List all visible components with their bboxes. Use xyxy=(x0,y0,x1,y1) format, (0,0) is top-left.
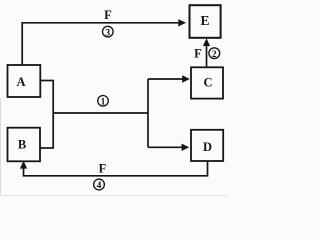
svg-text:F: F xyxy=(104,8,112,22)
svg-text:1: 1 xyxy=(101,98,106,108)
arrowhead into D left xyxy=(182,144,190,151)
box A xyxy=(8,65,41,97)
svg-text:F: F xyxy=(194,46,202,60)
node 1 circled xyxy=(98,96,109,108)
wire route 1 horizontal xyxy=(53,112,149,114)
wire A top to E (route 3) xyxy=(22,23,179,65)
node 2 circled xyxy=(209,48,220,60)
wire A right stub xyxy=(40,80,53,82)
svg-text:4: 4 xyxy=(97,181,102,191)
wire right connector vertical xyxy=(147,79,149,147)
svg-text:B: B xyxy=(18,138,26,152)
wire vertical connector A-B xyxy=(52,80,54,149)
node 4 circled xyxy=(94,179,105,191)
arrowhead into E bottom xyxy=(203,38,210,46)
box C xyxy=(191,67,223,98)
wire C to E (route 2) xyxy=(206,43,208,67)
svg-text:2: 2 xyxy=(212,50,217,60)
svg-text:F: F xyxy=(99,161,107,175)
wire B right stub xyxy=(40,147,53,149)
scan edge artifact left xyxy=(0,98,1,196)
svg-text:C: C xyxy=(203,76,212,90)
arrowhead into C left xyxy=(182,75,190,82)
svg-text:E: E xyxy=(200,13,209,28)
wire branch to C xyxy=(148,78,183,80)
arrowhead into E left xyxy=(178,19,186,26)
box B xyxy=(8,128,41,162)
svg-text:3: 3 xyxy=(105,28,110,38)
wire branch to D xyxy=(148,146,182,148)
svg-text:A: A xyxy=(16,75,25,89)
svg-text:D: D xyxy=(203,140,212,154)
box D xyxy=(191,130,223,161)
scan edge artifact bottom xyxy=(0,195,228,196)
arrowhead into B bottom xyxy=(20,161,27,169)
wire D to B (route 4) xyxy=(24,161,208,176)
box E xyxy=(190,5,221,38)
node 3 circled xyxy=(103,26,114,38)
